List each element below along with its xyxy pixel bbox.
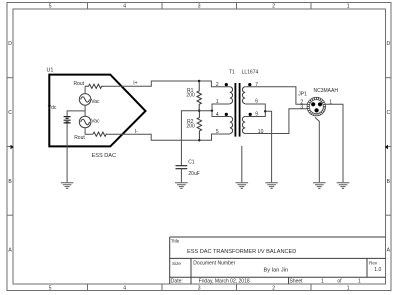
svg-text:Rout: Rout — [74, 81, 85, 87]
connector JP1 NC3MAAH — [298, 88, 338, 116]
svg-text:D: D — [386, 41, 390, 47]
svg-text:C: C — [8, 110, 12, 116]
svg-text:LL1674: LL1674 — [242, 70, 259, 76]
svg-text:Friday, March 02, 2018: Friday, March 02, 2018 — [199, 279, 250, 285]
svg-text:Rev: Rev — [369, 261, 378, 266]
wire Vdc to Vac node — [67, 111, 85, 117]
ground below secondary junction — [265, 183, 278, 189]
svg-text:2: 2 — [272, 3, 275, 9]
svg-text:C1: C1 — [188, 159, 195, 165]
svg-text:4: 4 — [216, 112, 219, 118]
wire pin 5 to R2 bottom node — [199, 134, 229, 140]
svg-text:Sheet: Sheet — [290, 279, 304, 285]
wire transformer shield to ground — [241, 146, 243, 182]
wire pin 6 to junction — [245, 104, 265, 111]
svg-text:4: 4 — [123, 285, 126, 291]
ground at JP1 shell — [313, 183, 326, 189]
svg-text:Vac: Vac — [91, 99, 100, 105]
transformer primary winding pins 2-1 — [230, 87, 233, 104]
polarity dot pin 7 — [248, 83, 251, 86]
wire JP1 pin 1 to ground — [326, 104, 343, 182]
svg-text:1: 1 — [358, 279, 361, 285]
svg-text:200: 200 — [186, 124, 195, 130]
wire JP1 shell to ground — [315, 117, 319, 182]
svg-text:JP1: JP1 — [298, 91, 307, 97]
svg-text:Vac: Vac — [91, 118, 100, 124]
svg-text:Size: Size — [172, 261, 181, 266]
wire pin 10 to JP1 pin 3 — [245, 109, 307, 134]
wire I- from U1 to R2 node — [106, 129, 200, 140]
svg-text:3: 3 — [300, 105, 303, 111]
svg-text:Date:: Date: — [171, 279, 183, 285]
resistor R2 — [186, 111, 201, 141]
wire pin 2 from R1 node to winding — [199, 81, 230, 87]
junction pins 6-9 — [264, 110, 266, 112]
svg-text:Rout: Rout — [74, 135, 85, 141]
wire Vdc to ground below U1 — [66, 123, 68, 182]
svg-text:1.0: 1.0 — [374, 267, 381, 273]
svg-text:I-: I- — [135, 129, 138, 135]
wire from top Rout to top Vac — [84, 86, 86, 93]
svg-text:20uF: 20uF — [188, 171, 199, 177]
wire C1 to ground — [180, 169, 182, 183]
ground below transformer — [236, 183, 249, 189]
svg-text:D: D — [8, 41, 12, 47]
resistor Rout (top inside U1) — [74, 81, 105, 88]
AC source Vac (bottom inside U1) — [79, 116, 100, 128]
transformer secondary winding pins 9-10 — [242, 117, 245, 134]
junction at R1 top — [198, 80, 200, 82]
svg-text:200: 200 — [186, 93, 195, 99]
ground below C1 — [175, 183, 188, 189]
svg-text:1: 1 — [216, 99, 219, 105]
resistor Rout (bottom inside U1) — [74, 132, 106, 141]
AC source Vac (top inside U1) — [79, 94, 100, 106]
wire between Vac sources — [84, 105, 86, 116]
wire pin 4 from centre tap — [212, 111, 230, 117]
capacitor C1 — [176, 159, 200, 177]
svg-text:ESS DAC: ESS DAC — [92, 153, 117, 159]
svg-text:2: 2 — [216, 82, 219, 88]
junction R1/R2 centre tap — [198, 110, 200, 112]
svg-text:I+: I+ — [133, 81, 137, 87]
svg-text:Vdc: Vdc — [48, 105, 57, 111]
polarity dot pin 4 — [225, 113, 228, 116]
ground at JP1 pin 1 — [337, 183, 350, 189]
wire I+ from U1 to R1 node — [105, 81, 200, 87]
svg-text:Document Number: Document Number — [193, 261, 235, 267]
svg-text:U1: U1 — [47, 67, 54, 73]
svg-text:5: 5 — [49, 3, 52, 9]
DC source Vdc (battery inside U1) — [48, 105, 71, 123]
transformer T1 labels — [229, 70, 259, 76]
svg-text:3: 3 — [198, 3, 201, 9]
svg-text:ESS DAC TRANSFORMER I/V BALANC: ESS DAC TRANSFORMER I/V BALANCED — [187, 249, 296, 255]
svg-text:of: of — [337, 279, 342, 285]
svg-text:T1: T1 — [229, 70, 235, 76]
transformer core — [235, 83, 239, 137]
wire pin 7 to JP1 pin 2 — [245, 87, 307, 105]
ground below U1 — [61, 183, 74, 189]
svg-text:5: 5 — [216, 129, 219, 135]
wire junction 6-9 to ground — [265, 111, 271, 182]
junction at R2 bottom — [198, 139, 200, 141]
svg-text:1: 1 — [321, 279, 324, 285]
svg-text:5: 5 — [49, 285, 52, 291]
svg-text:1: 1 — [347, 3, 350, 9]
svg-text:NC3MAAH: NC3MAAH — [314, 88, 339, 94]
wire centre tap to C1 — [181, 111, 212, 166]
title block — [170, 237, 386, 285]
svg-text:C: C — [386, 110, 390, 116]
junction pins 1-4 tie — [211, 110, 213, 112]
resistor R1 — [186, 81, 201, 111]
svg-text:Title: Title — [171, 239, 180, 244]
IC U1 ESS DAC body — [47, 67, 146, 159]
svg-text:2: 2 — [272, 285, 275, 291]
svg-text:3: 3 — [198, 285, 201, 291]
svg-text:4: 4 — [123, 3, 126, 9]
transformer secondary winding pins 7-6 — [242, 87, 245, 104]
polarity dot pin 2 — [225, 83, 228, 86]
transformer primary winding pins 4-5 — [230, 117, 233, 134]
polarity dot pin 9 — [249, 113, 252, 116]
wire pin 1 to centre tap — [212, 104, 230, 111]
svg-text:1: 1 — [347, 285, 350, 291]
wire bottom Vac to bottom Rout — [85, 128, 93, 134]
svg-text:By Ian Jin: By Ian Jin — [264, 267, 289, 273]
wire pin 9 to junction — [245, 111, 265, 116]
